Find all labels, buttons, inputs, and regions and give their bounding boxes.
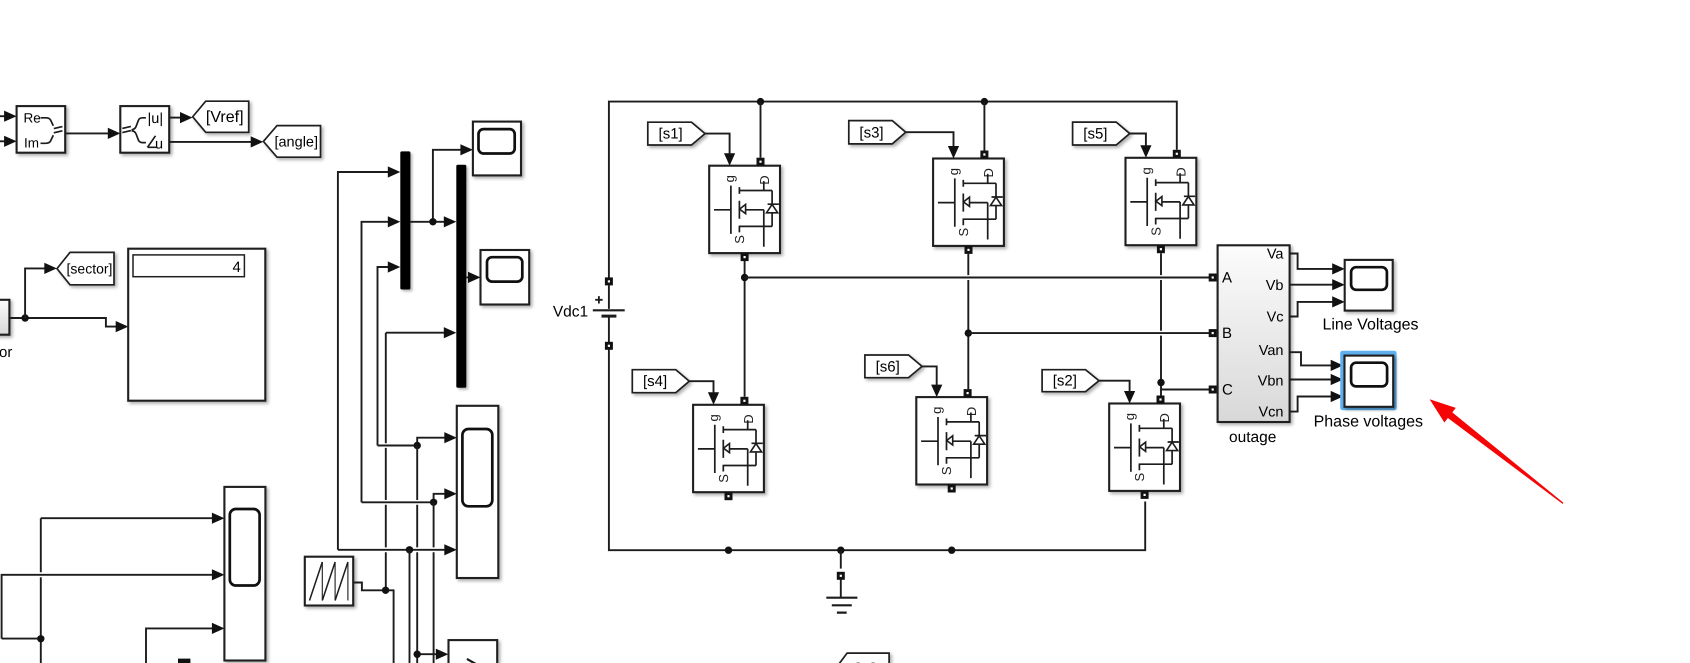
wire up to sector tag: [25, 268, 45, 318]
svg-text:or: or: [0, 344, 12, 361]
block U2 Complex to Magnitude-Angle: [120, 106, 169, 153]
wire s4 to gate Q4: [689, 381, 713, 393]
svg-text:[s4]: [s4]: [643, 373, 667, 390]
svg-text:[sector]: [sector]: [67, 261, 113, 277]
svg-text:C: C: [1222, 382, 1233, 399]
input port A square: [1209, 274, 1217, 282]
gate arrow of Q3: [948, 146, 959, 159]
wire feed bar1 input1 (long vertical x=337.9): [338, 172, 389, 550]
svg-text:Line Voltages: Line Voltages: [1322, 317, 1418, 334]
transistor Q4 MOSFET: [693, 405, 764, 492]
goto tag angle: [263, 126, 320, 158]
transistor Q2 MOSFET: [1109, 404, 1180, 491]
node sector junction: [21, 314, 28, 321]
block U1 Real-Imag to Complex: [17, 106, 66, 153]
DC source Vdc1: [593, 277, 625, 349]
wire block output with junction: [9, 318, 116, 327]
svg-text:Vb: Vb: [1266, 278, 1284, 294]
wire Vdc1 bottom to ground bus: [609, 350, 1145, 551]
partial block top edge (bottom-left): [178, 659, 190, 663]
wire junction into bar2: [433, 221, 445, 223]
wire feed bar1 input2: [362, 222, 389, 503]
node bar1 output junction: [429, 218, 436, 225]
wire s5 to gate Q5: [1130, 134, 1146, 147]
wire s1 to gate Q1: [705, 134, 730, 154]
wire Vcn to Phase voltages scope: [1290, 397, 1332, 412]
node junction x417: [414, 442, 421, 449]
svg-text:[s3]: [s3]: [859, 124, 883, 141]
port S of Q1: [741, 253, 749, 261]
mux bar2: [456, 165, 466, 388]
wire bar1 output to junction: [410, 221, 433, 223]
wire vertical x417 down to bottom block: [416, 446, 418, 663]
port S of Q4: [725, 492, 733, 500]
ground port: [837, 572, 845, 580]
port D of Q4: [740, 397, 748, 405]
svg-text:B: B: [1222, 325, 1232, 342]
node top bus junction M2: [981, 98, 988, 105]
bottom partial block (saturation): [449, 640, 498, 663]
node bus junction ground: [837, 547, 844, 554]
scope Line Voltages: [1345, 260, 1393, 311]
svg-text:Vc: Vc: [1267, 310, 1284, 326]
wire into tall-scope input1: [378, 445, 418, 447]
svg-text:[Vref]: [Vref]: [206, 109, 244, 126]
node phase C junction: [1157, 379, 1164, 386]
wire vertical x433 down: [433, 502, 435, 663]
from tag s5: [1073, 122, 1130, 145]
node junction x433: [430, 499, 437, 506]
wire into Re input: [0, 115, 5, 117]
from tag s6: [865, 355, 922, 378]
from tag s1: [648, 122, 705, 145]
node junction bottom-left: [37, 635, 44, 642]
gate arrow of Q6: [931, 385, 942, 398]
transistor Q6 MOSFET: [916, 397, 987, 484]
wire phase A leg: [744, 261, 746, 397]
svg-text:Vbn: Vbn: [1258, 374, 1284, 390]
svg-text:[s2]: [s2]: [1053, 373, 1077, 390]
from tag s2: [1042, 370, 1099, 392]
svg-text:[s6]: [s6]: [876, 358, 900, 375]
node phase A junction: [741, 274, 748, 281]
port D of Q2: [1157, 396, 1165, 404]
svg-text:|u|: |u|: [148, 111, 164, 127]
input port C square: [1209, 386, 1217, 394]
node phase B junction: [965, 329, 972, 336]
wire Van to Phase voltages scope: [1290, 352, 1332, 365]
svg-text:Va: Va: [1267, 247, 1285, 263]
port D of Q5: [1173, 150, 1181, 158]
wire junction up to scope1: [433, 150, 461, 222]
node bus junction M6: [948, 547, 955, 554]
scope1 (top small scope): [473, 122, 521, 176]
svg-text:[angle]: [angle]: [274, 134, 318, 150]
scope Phase voltages: [1345, 356, 1394, 407]
subsystem outage: [1218, 245, 1290, 422]
port D of Q6: [964, 389, 972, 397]
svg-text:A: A: [1222, 270, 1232, 287]
node bus junction M4: [725, 547, 732, 554]
goto tag (cut at bottom edge): [836, 653, 890, 663]
svg-text:[s1]: [s1]: [659, 126, 683, 143]
sawtooth repeating sequence block: [305, 557, 353, 606]
red annotation arrow: [1430, 399, 1564, 504]
gate arrow of Q2: [1124, 391, 1135, 404]
wire sawtooth output: [353, 583, 393, 663]
port S of Q3: [965, 246, 973, 254]
wire Va to Line Voltages scope: [1290, 254, 1333, 269]
wire sawtooth-net feed bar2 lower input (vertical x=385.8): [385, 333, 387, 591]
scope2 (second small scope): [481, 250, 530, 305]
wire bottom-left horizontal: [2, 638, 41, 640]
svg-text:u: u: [155, 136, 163, 152]
wire ground stem: [840, 550, 842, 568]
node sawtooth junction: [382, 587, 389, 594]
wire phase C leg: [1160, 253, 1162, 395]
wire |u| output to Vref tag: [169, 117, 181, 119]
wire s6 to gate Q6: [922, 366, 937, 385]
svg-text:4: 4: [232, 259, 240, 276]
wire Q3 drain to bus: [983, 102, 985, 151]
wire phase A bus to outage: [745, 277, 1209, 279]
wire into left-scope input3: [146, 628, 213, 663]
selection highlight (blue) around Phase voltages scope: [1340, 351, 1396, 411]
from tag s3: [849, 121, 906, 144]
wire phase B leg: [967, 254, 969, 389]
wire U1 output to U2: [65, 132, 108, 134]
node top bus junction M1: [757, 98, 764, 105]
wire feed bar1 input3: [378, 267, 389, 446]
input port B square: [1209, 329, 1217, 337]
transistor Q1 MOSFET: [709, 166, 780, 253]
wire bar2 output to scope2: [466, 276, 468, 278]
wire into tall-scope input2: [362, 501, 434, 503]
goto tag sector: [57, 252, 114, 284]
wire Vc to Line Voltages scope: [1290, 302, 1333, 317]
node junction bottom x417: [414, 651, 421, 658]
wire Vb to Line Voltages scope: [1290, 284, 1333, 286]
gate arrow of Q4: [708, 392, 719, 405]
goto tag Vref: [193, 101, 249, 132]
node junction x409: [406, 546, 413, 553]
wire s3 to gate Q3: [906, 132, 954, 147]
svg-text:Vdc1: Vdc1: [553, 303, 588, 320]
svg-text:outage: outage: [1229, 429, 1276, 446]
port S of Q2: [1141, 491, 1149, 499]
subsystem block (cut at left edge): [0, 300, 9, 335]
wire s2 to gate Q2: [1099, 381, 1130, 392]
wire into left-scope input1: [40, 518, 42, 639]
svg-text:Im: Im: [24, 136, 39, 151]
wire into Im input: [0, 140, 5, 142]
svg-text:[s5]: [s5]: [1083, 126, 1107, 143]
wire top DC bus: [609, 102, 1177, 278]
gate arrow of Q1: [724, 153, 735, 166]
left tall scope: [224, 487, 265, 661]
port D of Q3: [980, 151, 988, 159]
from tag s4: [632, 370, 689, 393]
svg-text:Re: Re: [24, 110, 41, 125]
wire Vbn to Phase voltages scope: [1290, 379, 1332, 381]
port S of Q5: [1157, 245, 1165, 253]
wire into tall-scope input3: [338, 549, 445, 551]
wire vertical x409 down: [409, 550, 411, 663]
transistor Q3 MOSFET: [933, 159, 1004, 246]
display block showing 4: [128, 249, 265, 401]
port D of Q1: [757, 158, 765, 166]
transistor Q5 MOSFET: [1126, 158, 1197, 245]
wire angle output to angle tag: [169, 141, 251, 143]
svg-text:Phase voltages: Phase voltages: [1314, 413, 1423, 430]
mux bar1: [400, 151, 410, 289]
gate arrow of Q5: [1140, 145, 1151, 158]
wire phase C bus to outage: [1161, 389, 1209, 391]
svg-text:Van: Van: [1259, 343, 1284, 359]
svg-text:Vcn: Vcn: [1259, 405, 1284, 421]
wire phase B bus to outage: [968, 332, 1209, 334]
ground symbol: [826, 580, 857, 613]
wire into left-scope input2: [2, 575, 213, 639]
wire Q1 drain to bus: [760, 102, 762, 158]
wire junction x417 to bottom block: [417, 653, 436, 655]
port S of Q6: [948, 485, 956, 493]
tall scope (middle): [457, 406, 499, 578]
